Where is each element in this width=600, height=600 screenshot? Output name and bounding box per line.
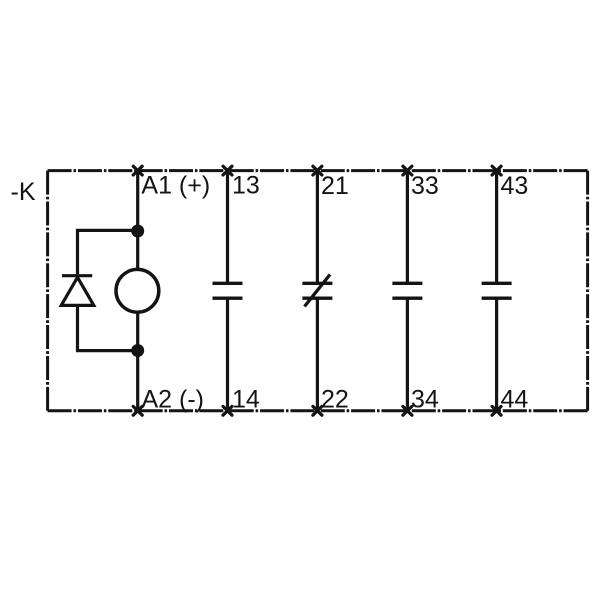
svg-text:-K: -K [11, 178, 36, 206]
svg-text:A1 (+): A1 (+) [141, 171, 210, 199]
svg-text:21: 21 [321, 172, 349, 200]
svg-text:43: 43 [501, 172, 529, 200]
svg-text:33: 33 [411, 172, 439, 200]
svg-text:A2 (-): A2 (-) [142, 385, 205, 413]
svg-text:13: 13 [232, 172, 260, 200]
svg-text:44: 44 [501, 385, 529, 413]
svg-text:34: 34 [411, 385, 439, 413]
svg-text:22: 22 [321, 385, 349, 413]
svg-text:14: 14 [232, 385, 260, 413]
